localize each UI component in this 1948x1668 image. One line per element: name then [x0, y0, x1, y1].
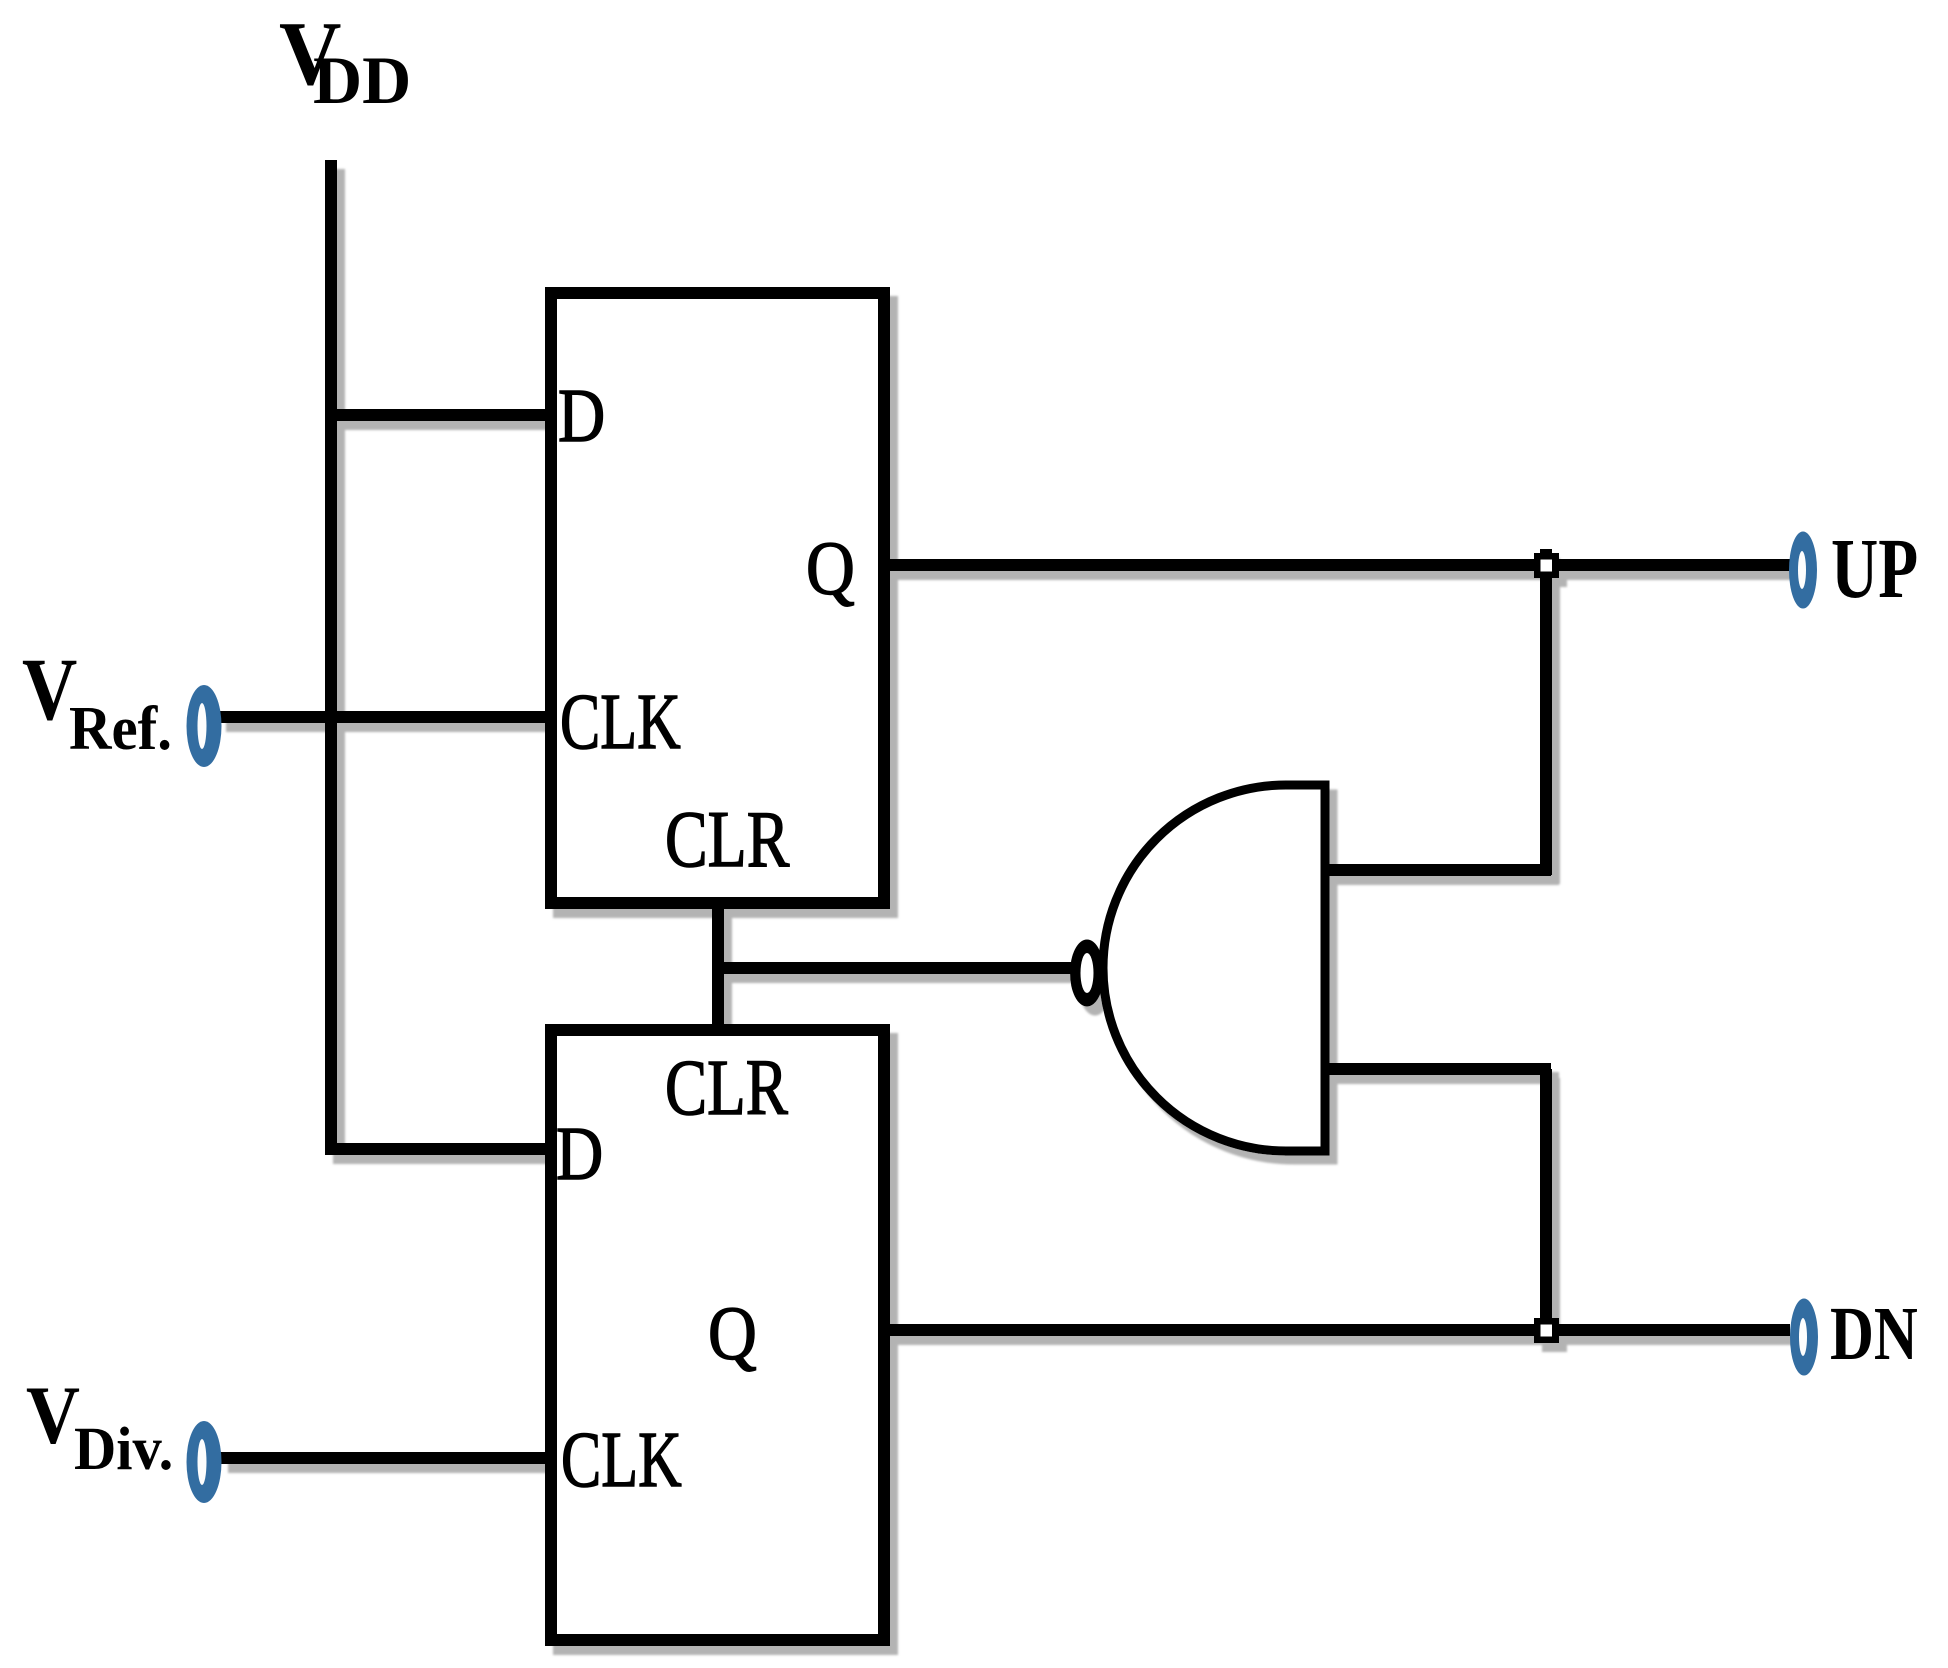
NAND gate U3 output bubble: [1070, 940, 1104, 1007]
svg-text:UP: UP: [1831, 520, 1918, 616]
wire CLR link between U1 and U2: [712, 903, 724, 1030]
svg-text:CLK: CLK: [560, 678, 681, 766]
wire VDiv to CLK of U2: [220, 1452, 551, 1464]
wire NAND output to CLR node: [712, 962, 1072, 974]
terminal DN: [1790, 1299, 1818, 1376]
svg-text:Ref.: Ref.: [69, 695, 172, 764]
wire D input stub of U1: [325, 409, 551, 421]
svg-text:Q: Q: [806, 526, 855, 611]
NAND gate U3 body: [1103, 785, 1325, 1151]
D flip-flop U2 body: [551, 1030, 884, 1640]
svg-text:D: D: [556, 1113, 603, 1197]
node UP junction: [1534, 553, 1559, 578]
wire Q of U1 to UP terminal: [884, 559, 1790, 571]
wire UP node drop to NAND input A: [1540, 549, 1552, 875]
terminal VDiv: [187, 1421, 222, 1503]
terminal UP: [1789, 532, 1817, 609]
wire VDD rail vertical: [325, 160, 337, 1153]
svg-text:DD: DD: [313, 42, 411, 118]
wire NAND input A horizontal: [1325, 864, 1551, 876]
node DN junction: [1534, 1318, 1559, 1343]
wire Q of U2 to DN terminal: [884, 1324, 1790, 1336]
wire DN node rise to NAND input B: [1540, 1069, 1552, 1330]
svg-text:Div.: Div.: [74, 1415, 173, 1482]
svg-text:CLR: CLR: [665, 1044, 788, 1131]
terminal VRef: [187, 685, 222, 767]
wire VRef to CLK of U1: [218, 711, 551, 723]
svg-text:Q: Q: [708, 1291, 757, 1376]
svg-text:D: D: [558, 375, 605, 459]
wire D input stub of U2: [325, 1143, 551, 1155]
svg-text:CLR: CLR: [665, 794, 790, 883]
svg-text:DN: DN: [1830, 1292, 1918, 1376]
svg-text:V: V: [26, 1370, 80, 1461]
D flip-flop U1 body: [551, 293, 884, 903]
svg-text:CLK: CLK: [561, 1416, 682, 1504]
wire NAND input B horizontal: [1325, 1063, 1551, 1075]
